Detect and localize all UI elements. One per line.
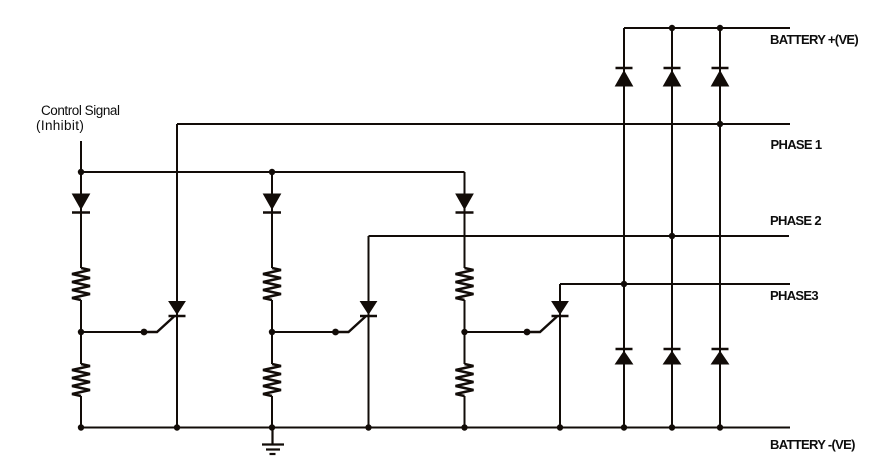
wire freewheel column C — [719, 28, 721, 428]
diode freewheel upper A — [616, 68, 633, 86]
junction stage 3 divider node — [461, 329, 467, 335]
resistor stage 3 lower — [456, 364, 474, 396]
wire stage 2 column upper — [271, 172, 273, 268]
resistor stage 2 lower — [263, 364, 281, 396]
node PHASE 2 label — [770, 213, 821, 228]
wire phase 2 rail — [369, 235, 790, 237]
wire freewheel column A — [623, 28, 625, 428]
junction battery negative / column C — [717, 424, 723, 430]
junction stage 1 gate wire — [141, 329, 148, 336]
node Control Signal (Inhibit) label — [41, 103, 120, 134]
wire phase 3 rail — [560, 283, 790, 285]
diode freewheel lower C — [712, 349, 729, 364]
node PHASE3 label — [770, 288, 818, 303]
junction battery negative / SCR1 — [174, 424, 180, 430]
wire stage 1 gate — [81, 331, 157, 333]
wire stage 1 column upper — [80, 172, 82, 268]
junction control bus / stage 1 — [78, 169, 84, 175]
diode stage 1 (control blocking) — [72, 194, 90, 213]
wire phase 1 rail — [177, 123, 790, 125]
junction phase 2 / column B — [669, 233, 675, 239]
wire SCR2 anode/cathode column — [368, 236, 370, 428]
junction battery negative / SCR3 — [557, 424, 563, 430]
wire stage 3 column middle — [464, 300, 466, 364]
junction battery negative / stage 3 — [461, 424, 467, 430]
diode freewheel lower A — [616, 349, 633, 364]
wire battery positive rail — [624, 27, 790, 29]
junction battery negative / SCR2 — [365, 424, 371, 430]
thyristor SCR3 — [527, 302, 569, 333]
junction phase 3 / column A — [621, 281, 627, 287]
junction stage 2 divider node — [269, 329, 275, 335]
diode freewheel upper B — [664, 68, 681, 86]
wire stage 2 gate — [272, 331, 349, 333]
junction stage 3 gate wire — [524, 329, 531, 336]
ground — [262, 428, 284, 455]
thyristor SCR1 — [144, 302, 186, 333]
resistor stage 2 upper — [263, 268, 281, 300]
junction battery negative / stage 2 ground — [269, 424, 275, 430]
wire control signal input stem — [80, 141, 82, 172]
junction stage 2 gate wire — [332, 329, 339, 336]
junction phase 1 / column C — [717, 121, 723, 127]
junction battery negative / column A — [621, 424, 627, 430]
resistor stage 1 lower — [72, 364, 90, 396]
junction battery positive / column B — [669, 25, 675, 31]
wire stage 1 column lower — [80, 396, 82, 428]
node BATTERY -(VE) label — [770, 437, 855, 452]
wire stage 2 column middle — [271, 300, 273, 364]
wire freewheel column B — [671, 28, 673, 428]
resistor stage 3 upper — [456, 268, 474, 300]
diode freewheel lower B — [664, 349, 681, 364]
wire SCR3 anode/cathode column — [559, 284, 561, 428]
node BATTERY +(VE) label — [770, 32, 858, 47]
resistor stage 1 upper — [72, 268, 90, 300]
wire control signal bus — [81, 171, 465, 173]
wire stage 3 column lower — [464, 396, 466, 428]
thyristor SCR2 — [336, 302, 378, 333]
junction battery negative / stage 1 — [78, 424, 84, 430]
wire stage 1 column middle — [80, 300, 82, 364]
junction stage 1 divider node — [78, 329, 84, 335]
junction battery negative / column B — [669, 424, 675, 430]
wire stage 2 column lower — [271, 396, 273, 428]
wire battery negative rail — [81, 427, 790, 429]
wire stage 3 column upper — [464, 172, 466, 268]
junction control bus / stage 2 — [269, 169, 275, 175]
node PHASE 1 label — [771, 137, 822, 152]
diode stage 3 (control blocking) — [456, 194, 474, 213]
wire SCR1 anode/cathode column — [176, 124, 178, 428]
diode stage 2 (control blocking) — [263, 194, 281, 213]
junction battery positive / column C — [717, 25, 723, 31]
wire stage 3 gate — [465, 331, 541, 333]
diode freewheel upper C — [712, 68, 729, 86]
